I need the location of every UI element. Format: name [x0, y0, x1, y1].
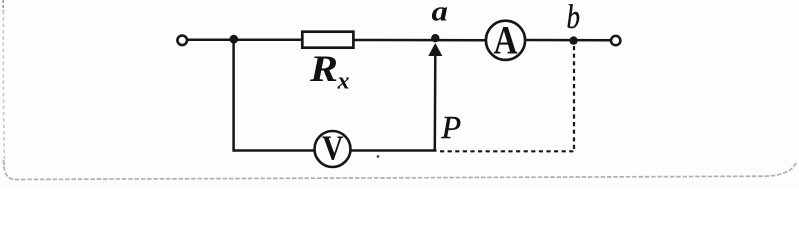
- node a: [431, 34, 439, 42]
- svg-text:A: A: [494, 18, 518, 63]
- wire: [351, 149, 437, 152]
- dashed wire: [573, 46, 575, 151]
- resistor Rx: [302, 32, 353, 48]
- svg-text:V: V: [322, 129, 344, 168]
- dashed wire: [440, 150, 575, 152]
- node b: [569, 36, 577, 44]
- wire: [353, 39, 486, 42]
- wire: [232, 39, 235, 152]
- probe arrow P: [434, 54, 437, 151]
- svg-text:R: R: [309, 49, 338, 90]
- wire: [525, 39, 611, 42]
- terminal right: [611, 36, 620, 45]
- svg-text:b: b: [567, 0, 581, 36]
- svg-text:P: P: [441, 109, 462, 145]
- wire: [186, 39, 302, 42]
- junction node: [229, 35, 238, 44]
- page border (decorative): [2, 0, 4, 11]
- ink speck: [377, 155, 380, 158]
- svg-text:x: x: [337, 68, 350, 94]
- voltmeter U2: [315, 131, 351, 167]
- svg-text:a: a: [432, 0, 449, 28]
- terminal left: [177, 36, 187, 46]
- ammeter U1: [486, 21, 525, 60]
- wire: [233, 149, 315, 152]
